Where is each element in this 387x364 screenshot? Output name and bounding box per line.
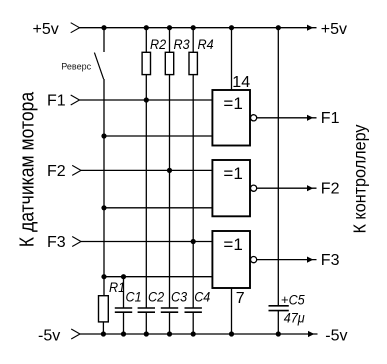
wire R3 column top [169, 28, 171, 53]
svg-text:Реверс: Реверс [61, 61, 91, 71]
wire F2 input row [81, 169, 212, 171]
wire C4 to bottom rail [192, 312, 194, 334]
svg-text:C4: C4 [194, 289, 210, 305]
wire R4 column top [192, 28, 194, 53]
op-amp gate U1.2 box [212, 160, 250, 216]
wire C3 to bottom rail [169, 312, 171, 334]
junction bottom rail at C5 [276, 331, 281, 336]
chevron input F1 [71, 95, 80, 105]
wire R1 to bottom rail [102, 322, 104, 334]
wire top +5v rail [80, 27, 317, 29]
svg-text:-5v: -5v [325, 328, 347, 345]
resistor R2 body [142, 52, 150, 74]
switch S1 blade [94, 53, 103, 80]
resistor R3 body [165, 52, 173, 74]
svg-text:14: 14 [232, 74, 250, 91]
junction bottom rail at C3 [167, 331, 172, 336]
svg-text:7: 7 [236, 290, 245, 307]
svg-text:R3: R3 [174, 36, 191, 52]
arrow -5v bottom right [308, 331, 314, 337]
junction top rail at switch column [101, 25, 106, 30]
wire F3 input row [81, 241, 212, 243]
junction top rail at R2 [144, 25, 149, 30]
capacitor C4 plates [185, 307, 202, 309]
svg-text:F2: F2 [321, 181, 340, 198]
wire pin 7 [231, 288, 233, 334]
svg-text:R4: R4 [198, 36, 214, 52]
arrow +5v top right [307, 25, 313, 31]
chevron input -5v bottom left [71, 329, 80, 339]
junction switch to gate3 lower input [101, 274, 106, 279]
chevron input +5v top left [71, 23, 80, 33]
capacitor C3 plates [161, 307, 178, 309]
svg-text:F1: F1 [321, 110, 340, 127]
junction top rail at R4 [191, 25, 196, 30]
wire C1 column [123, 277, 125, 308]
svg-text:+5v: +5v [321, 21, 347, 38]
junction C1 to gate3 lower input [121, 274, 126, 279]
wire gate1 lower input row [104, 135, 212, 137]
junction bottom rail at pin7 [229, 331, 234, 336]
arrow F3 output [307, 257, 313, 263]
junction switch to gate1 lower input [101, 133, 106, 138]
wire F1 input row [80, 99, 213, 101]
wire C1 to bottom rail [123, 312, 125, 334]
svg-text:+5v: +5v [33, 21, 59, 38]
svg-text:+: + [281, 292, 289, 307]
junction switch to gate2 lower input [101, 205, 106, 210]
wire C5 to bottom rail [277, 311, 279, 334]
svg-text:F3: F3 [47, 234, 66, 251]
chevron input F2 [72, 165, 81, 175]
wire R4 column to C4 [192, 75, 194, 308]
wire gate1 output [257, 117, 317, 119]
svg-text:C3: C3 [171, 289, 188, 305]
junction bottom rail at R1 [101, 331, 106, 336]
wire R3 column to C3 [169, 75, 171, 308]
svg-text:К датчикам мотора: К датчикам мотора [15, 91, 37, 247]
junction R3 to F2 row [167, 168, 172, 173]
arrow F2 output [307, 185, 313, 191]
capacitor C5 plates [269, 305, 289, 307]
capacitor C1 plates [115, 307, 132, 309]
op-amp gate U1.1 box [212, 90, 250, 146]
junction bottom rail at C4 [191, 331, 196, 336]
resistor R4 body [189, 52, 197, 74]
junction top rail at right rail [276, 25, 281, 30]
svg-text:47μ: 47μ [284, 310, 306, 326]
gate U1.2 inversion bubble [251, 185, 257, 191]
svg-text:C1: C1 [126, 289, 142, 305]
junction R2 to F1 row [144, 97, 149, 102]
junction R4 to F3 row [191, 239, 196, 244]
svg-text:=1: =1 [223, 164, 242, 183]
gate U1.1 inversion bubble [251, 115, 257, 121]
capacitor C2 plates [138, 307, 155, 309]
svg-text:C2: C2 [148, 289, 165, 305]
junction bottom rail at C1 [121, 331, 126, 336]
svg-text:F3: F3 [321, 252, 340, 269]
junction top rail at R3 [167, 25, 172, 30]
wire switch column upper [103, 28, 105, 52]
wire C2 to bottom rail [145, 312, 147, 334]
junction bottom rail at C2 [144, 331, 149, 336]
wire bottom -5v rail [80, 333, 318, 335]
chevron input F3 [72, 237, 81, 247]
op-amp gate U1.3 box [212, 231, 250, 288]
wire switch column lower [103, 79, 105, 296]
svg-text:R2: R2 [150, 36, 167, 52]
wire R2 column to C2 [145, 75, 147, 308]
arrow F1 output [307, 115, 313, 121]
resistor R1 body [99, 296, 109, 322]
gate U1.3 inversion bubble [251, 257, 257, 263]
svg-text:F1: F1 [47, 92, 66, 109]
svg-text:К контроллеру: К контроллеру [350, 124, 370, 233]
wire gate3 output [257, 259, 317, 261]
svg-text:R1: R1 [109, 279, 125, 295]
svg-text:F2: F2 [47, 163, 66, 180]
svg-text:=1: =1 [223, 235, 242, 254]
svg-text:=1: =1 [223, 94, 242, 113]
svg-text:C5: C5 [289, 292, 306, 308]
wire gate3 lower input row [104, 276, 212, 278]
junction top rail at pin14 [229, 25, 234, 30]
wire R2 column top [145, 28, 147, 53]
wire pin 14 [231, 28, 233, 90]
wire gate2 lower input row [104, 207, 212, 209]
wire gate2 output [257, 187, 317, 189]
svg-text:-5v: -5v [38, 327, 60, 344]
wire right +5v rail [277, 28, 279, 306]
